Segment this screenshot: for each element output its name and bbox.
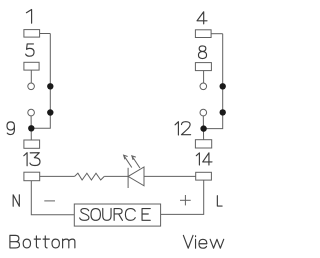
right bus wire <box>204 34 223 129</box>
movable contact dot lower left <box>47 109 53 115</box>
N label <box>13 195 19 207</box>
junction node pin 9 <box>28 125 34 131</box>
pin 1 label <box>26 10 31 24</box>
wire LED to pin14 <box>144 175 196 177</box>
contact circle under pin 8 <box>200 83 207 90</box>
SOURCE label <box>80 208 151 220</box>
contact circle under pin 5 <box>28 83 35 90</box>
terminal pin 8 <box>195 63 211 71</box>
wire pin5 to contact <box>30 70 32 83</box>
pin 13 label <box>24 153 40 166</box>
terminal pin 9 <box>24 140 40 148</box>
wire pin1 to left bus <box>40 33 51 35</box>
wire contact to pin 9 <box>30 116 32 140</box>
terminal pin 1 <box>24 30 40 37</box>
terminal pin 14 <box>196 172 212 180</box>
movable contact dot lower right <box>220 109 226 115</box>
pin 14 label <box>196 153 212 165</box>
pin 12 label <box>175 122 191 135</box>
movable contact dot upper right <box>220 83 226 89</box>
plus sign <box>180 195 191 205</box>
junction node pin 12 <box>200 125 206 131</box>
resistor <box>75 173 105 180</box>
left bus wire <box>31 34 50 129</box>
wire pin13 down to source <box>31 181 74 215</box>
LED triangle <box>128 167 144 186</box>
L label <box>217 196 222 206</box>
movable contact dot upper left <box>47 83 53 89</box>
wire resistor to LED <box>104 175 128 177</box>
LED cathode bar <box>127 168 129 188</box>
terminal pin 4 <box>195 30 211 38</box>
pin 9 label <box>7 122 14 135</box>
pin 4 label <box>197 12 207 24</box>
wire contact to pin 12 <box>202 116 204 140</box>
wire pin14 down to source <box>161 180 204 214</box>
wire pin8 to contact <box>203 71 205 83</box>
pin 8 label <box>198 46 206 59</box>
terminal pin 5 <box>24 62 39 70</box>
terminal pin 12 <box>195 140 211 148</box>
terminal pin 13 <box>24 172 40 181</box>
pin 5 label <box>26 44 34 56</box>
minus sign <box>44 200 55 202</box>
LED arrow 1 <box>124 155 132 167</box>
View caption <box>183 235 223 248</box>
wire pin4 to right bus <box>211 33 223 35</box>
wire pin13 to resistor <box>40 175 75 177</box>
LED arrow 2 <box>132 156 140 168</box>
contact circle above pin 9 <box>28 109 35 116</box>
Bottom caption <box>10 235 75 248</box>
SOURCE box <box>74 204 160 226</box>
contact circle above pin 12 <box>200 109 207 116</box>
